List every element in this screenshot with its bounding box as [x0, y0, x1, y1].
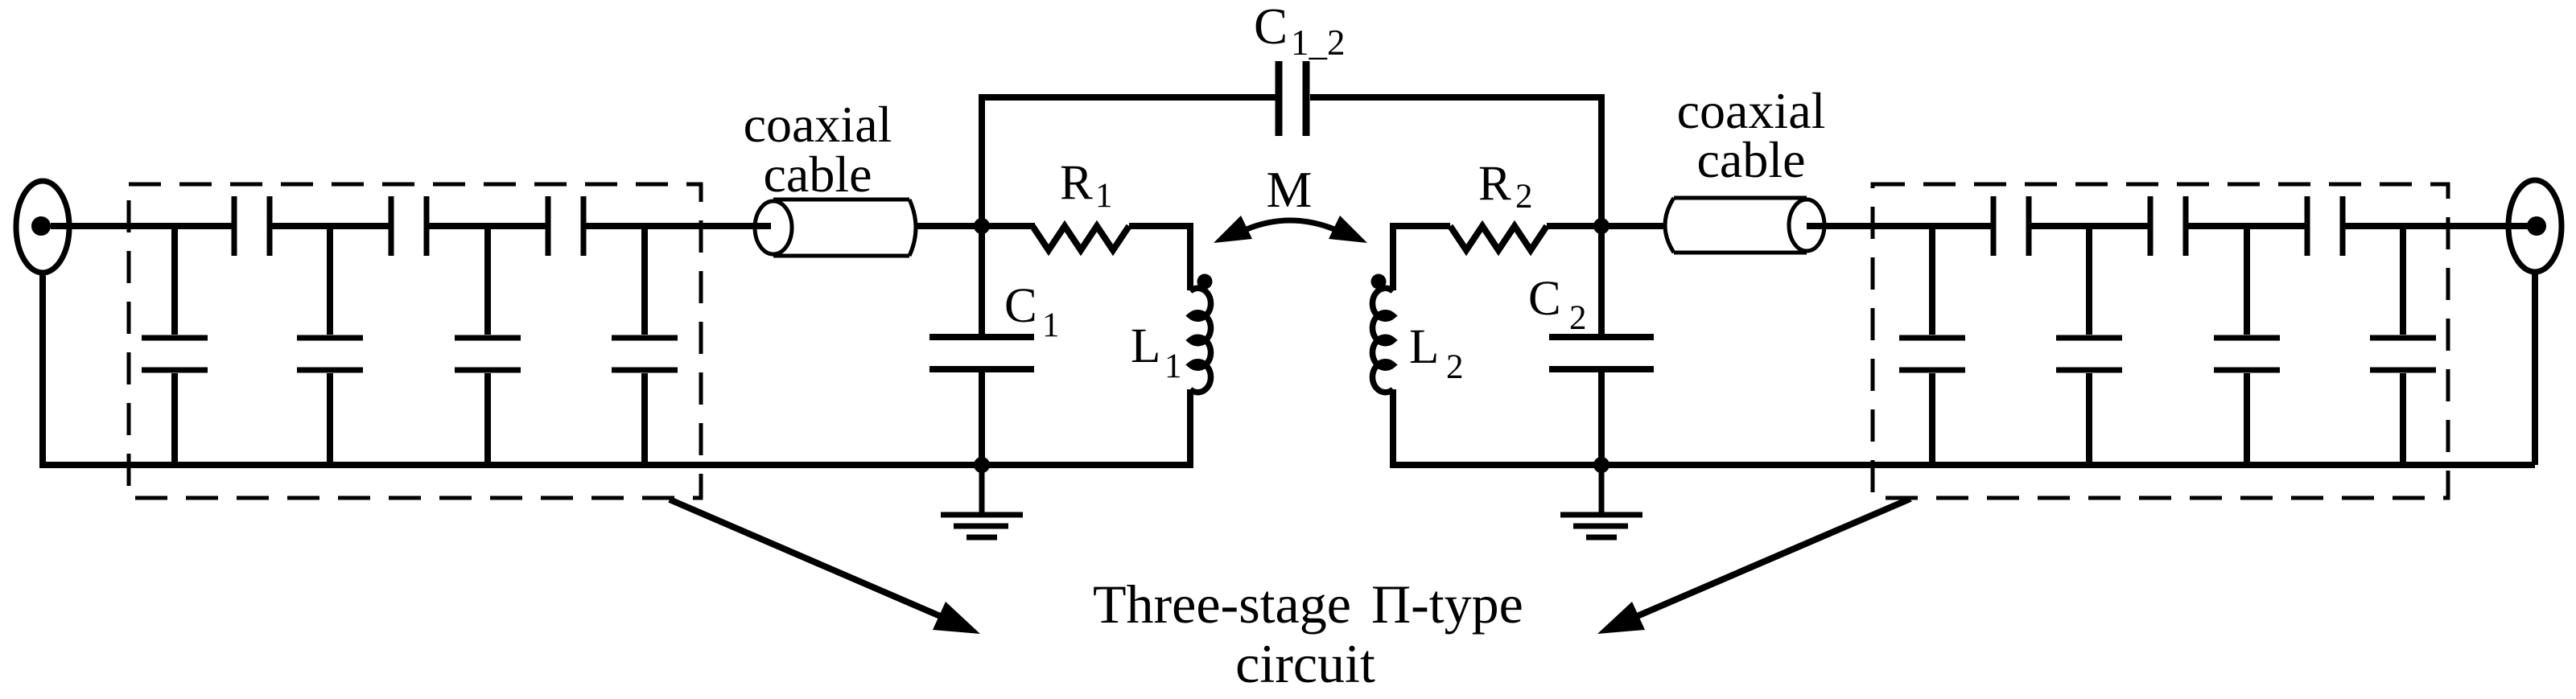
capacitor shunt A4	[612, 226, 678, 465]
capacitor shunt B2	[2056, 226, 2122, 465]
mutual coupling arrow M	[1214, 216, 1367, 243]
node N1g	[974, 457, 990, 473]
wire riser N2 to top	[1598, 94, 1605, 226]
svg-text:cable: cable	[1697, 131, 1806, 188]
node N2	[1593, 218, 1609, 234]
wire top C1_2 left	[979, 94, 1276, 101]
resistor R2	[1450, 226, 1547, 250]
wire port P1 to first node	[51, 223, 232, 229]
label R1	[1060, 156, 1113, 215]
capacitor series S1	[234, 196, 270, 256]
node N2g	[1593, 457, 1609, 473]
svg-text:1: 1	[1042, 306, 1060, 344]
label coaxial cable left	[744, 96, 892, 203]
capacitor shunt B4	[2370, 226, 2436, 465]
wire L1 to bus	[1187, 389, 1193, 468]
wire L2 to bus	[1390, 389, 1396, 468]
dashed box: left three-stage Pi-type circuit	[129, 184, 701, 498]
wire coax left to node N1	[915, 223, 1035, 229]
phase dot L1	[1197, 274, 1213, 290]
port P2 (right connector)	[2508, 180, 2562, 272]
svg-text:1: 1	[1164, 347, 1182, 385]
wire riser N1 to top	[979, 94, 985, 226]
label Three-stage Pi-type circuit	[1093, 574, 1523, 694]
svg-text:circuit: circuit	[1235, 633, 1375, 694]
wire T2 to B3	[2188, 223, 2305, 229]
dashed box: right three-stage Pi-type circuit	[1873, 184, 2448, 498]
wire T1 to B2	[2031, 223, 2148, 229]
wire S1 to A2	[272, 223, 389, 229]
wire T3 to port P2	[2345, 223, 2537, 229]
wire S3 to A4 and out of box	[586, 223, 771, 229]
svg-text:2: 2	[1569, 299, 1587, 337]
capacitor C1	[929, 226, 1034, 465]
svg-text:Three-stage: Three-stage	[1093, 574, 1351, 635]
ground G2	[1560, 465, 1642, 537]
wire R2 to node N2	[1547, 223, 1666, 229]
capacitor shunt A2	[297, 226, 363, 465]
label C1_2	[1254, 0, 1346, 63]
phase dot L2	[1371, 274, 1387, 290]
svg-text:1: 1	[1095, 177, 1113, 215]
svg-text:coaxial: coaxial	[744, 96, 892, 153]
svg-text:cable: cable	[764, 146, 872, 203]
svg-text:2: 2	[1446, 348, 1464, 386]
svg-text:2: 2	[1515, 178, 1533, 216]
capacitor C2	[1549, 226, 1654, 465]
inductor L1	[1190, 288, 1211, 392]
capacitor series S3	[548, 196, 583, 256]
wire S2 to A3	[429, 223, 546, 229]
svg-text:C: C	[1528, 272, 1561, 326]
label C1	[1004, 279, 1060, 344]
ground G1	[941, 465, 1023, 537]
inductor L2	[1372, 288, 1393, 392]
node N1	[974, 218, 990, 234]
wire bottom bus right	[1393, 462, 2535, 468]
wire R1 to L1 corner	[1129, 226, 1190, 290]
wire coax right to box	[1807, 223, 1991, 229]
label coaxial cable right	[1677, 82, 1826, 188]
label C2	[1528, 272, 1587, 337]
capacitor series S2	[391, 196, 427, 256]
capacitor shunt A1	[142, 226, 208, 465]
svg-text:R: R	[1060, 156, 1093, 210]
coaxial cable left (cylinder)	[755, 199, 916, 256]
port P1 (left connector)	[16, 181, 69, 273]
svg-text:L: L	[1409, 320, 1439, 374]
resistor R1	[1032, 226, 1129, 250]
label L2	[1409, 320, 1464, 386]
svg-text:M: M	[1267, 161, 1313, 218]
svg-text:L: L	[1131, 319, 1160, 373]
callout arrow left	[670, 500, 980, 634]
coaxial cable right (cylinder)	[1665, 198, 1824, 253]
capacitor series T1	[1993, 196, 2029, 256]
svg-text:R: R	[1478, 157, 1511, 211]
wire L2 top corner to R2	[1393, 226, 1450, 290]
svg-text:Π-type: Π-type	[1371, 574, 1523, 635]
wire top C1_2 right	[1310, 94, 1605, 101]
capacitor series T3	[2307, 196, 2343, 256]
wire port P2 down	[2532, 272, 2538, 465]
capacitor series T2	[2150, 196, 2186, 256]
capacitor shunt B3	[2214, 226, 2280, 465]
wire port P1 down	[39, 273, 46, 468]
callout arrow right	[1597, 499, 1910, 634]
svg-text:C: C	[1004, 279, 1037, 333]
capacitor shunt A3	[455, 226, 521, 465]
label L1	[1131, 319, 1182, 385]
svg-text:1_2: 1_2	[1291, 23, 1346, 63]
capacitor shunt B1	[1899, 226, 1965, 465]
label R2	[1478, 157, 1533, 216]
wire bottom bus left	[39, 462, 1190, 468]
capacitor C1_2	[1279, 61, 1306, 136]
svg-text:C: C	[1254, 0, 1288, 55]
